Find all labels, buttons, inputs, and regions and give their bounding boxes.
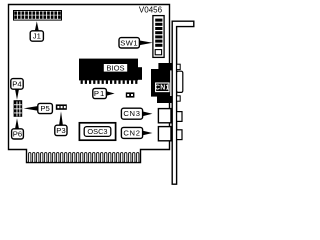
svg-text:CN2: CN2 (123, 128, 140, 137)
svg-text:P6: P6 (13, 129, 22, 138)
connector CN3 (158, 109, 182, 123)
svg-text:P4: P4 (12, 79, 22, 88)
P1 label callout (93, 88, 115, 98)
svg-text:CN1: CN1 (155, 84, 170, 91)
svg-text:SW1: SW1 (120, 38, 138, 47)
jumper P1 (126, 92, 135, 97)
CN3 label callout (121, 108, 152, 119)
svg-text:P1: P1 (94, 89, 105, 98)
connector J1 (13, 10, 62, 21)
jumper P3 (56, 104, 67, 109)
SW1 label callout (119, 38, 153, 48)
P3 label callout (55, 111, 67, 135)
CN1 label (155, 83, 170, 92)
svg-text:V0456: V0456 (139, 6, 163, 15)
svg-text:BIOS: BIOS (106, 64, 124, 73)
card edge connector fingers (29, 153, 139, 163)
P6 label callout (12, 118, 24, 139)
board outline (9, 5, 170, 163)
jumper block P4 (14, 100, 23, 117)
svg-text:P3: P3 (56, 126, 65, 135)
connector CN2 (158, 127, 182, 141)
P5 label callout (24, 103, 53, 113)
P4 label callout (11, 79, 23, 100)
BIOS ROM chip (79, 59, 142, 84)
silkscreen text V0456 (139, 6, 163, 15)
CN2 label callout (121, 127, 152, 138)
BIOS label (103, 63, 128, 72)
svg-text:OSC3: OSC3 (87, 127, 107, 136)
svg-text:CN3: CN3 (123, 109, 140, 118)
DIP switch SW1 (153, 16, 164, 58)
J1 label callout (30, 21, 43, 41)
oscillator OSC3 (79, 123, 115, 140)
svg-text:P5: P5 (40, 104, 49, 113)
connector CN1 (151, 63, 183, 103)
mounting bracket (172, 21, 194, 184)
svg-text:J1: J1 (33, 32, 41, 41)
